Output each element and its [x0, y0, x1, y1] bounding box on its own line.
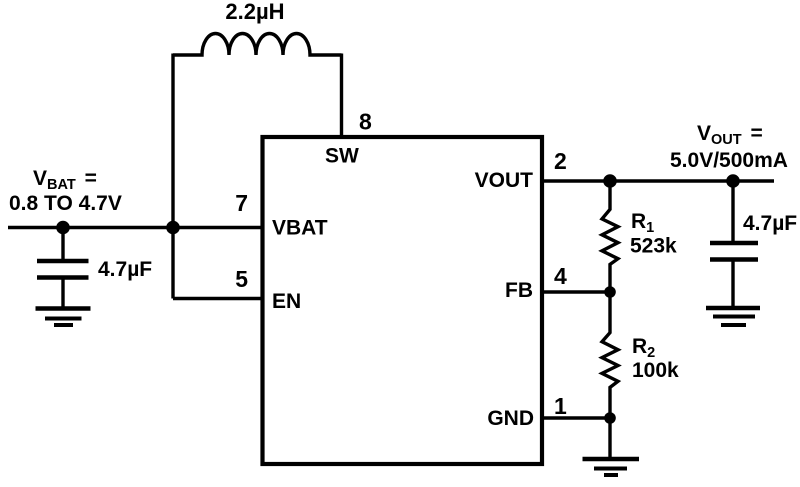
- svg-text:R2: R2: [632, 335, 655, 361]
- ground input: [36, 306, 91, 311]
- svg-text:1: 1: [554, 393, 567, 419]
- svg-text:0.8 TO 4.7V: 0.8 TO 4.7V: [9, 192, 122, 215]
- svg-text:2: 2: [554, 148, 567, 174]
- capacitor C2 4.7uF output: [731, 181, 734, 241]
- wire EN to IC: [173, 297, 263, 300]
- svg-text:5.0V/500mA: 5.0V/500mA: [670, 149, 788, 172]
- svg-text:2.2µH: 2.2µH: [225, 0, 284, 24]
- svg-text:VOUT: VOUT: [475, 169, 534, 192]
- resistor R2 100k: [602, 292, 618, 418]
- capacitor C1 4.7uF input: [61, 228, 64, 260]
- svg-text:EN: EN: [272, 290, 301, 313]
- svg-text:4.7µF: 4.7µF: [743, 212, 797, 235]
- svg-text:8: 8: [359, 109, 372, 135]
- svg-text:523k: 523k: [630, 235, 677, 258]
- svg-text:VOUT =: VOUT =: [697, 122, 763, 148]
- IC U1 body: [263, 137, 543, 464]
- junction dot VBAT/EN: [166, 221, 180, 235]
- svg-text:4: 4: [554, 263, 567, 289]
- svg-text:FB: FB: [505, 279, 533, 302]
- svg-text:VBAT: VBAT: [272, 217, 328, 240]
- svg-text:100k: 100k: [632, 359, 679, 382]
- svg-text:5: 5: [235, 266, 248, 292]
- wire GND pin to ground: [542, 416, 610, 419]
- svg-text:4.7µF: 4.7µF: [98, 258, 152, 281]
- wire SW pin 8 drop: [340, 54, 343, 138]
- ground output: [706, 306, 760, 311]
- inductor L1 2.2uH: [173, 34, 342, 56]
- wire FB to divider: [542, 290, 610, 293]
- junction dot VOUT/R1: [603, 174, 617, 188]
- wire vertical from inductor left to EN: [171, 54, 174, 299]
- resistor R1 523k: [602, 181, 618, 292]
- ground below GND pin: [583, 457, 640, 462]
- junction dot GND node: [604, 412, 616, 424]
- wire VOUT rail: [542, 179, 774, 182]
- svg-text:7: 7: [235, 190, 248, 216]
- wire ground stem below GND: [608, 418, 611, 459]
- svg-text:GND: GND: [487, 407, 534, 430]
- wire input VBAT rail: [8, 226, 263, 229]
- svg-text:VBAT =: VBAT =: [33, 167, 97, 193]
- svg-text:R1: R1: [631, 210, 654, 236]
- svg-text:SW: SW: [325, 145, 359, 168]
- junction dot input cap: [56, 221, 70, 235]
- junction dot FB node: [604, 286, 616, 298]
- junction dot VOUT/C2: [726, 174, 740, 188]
